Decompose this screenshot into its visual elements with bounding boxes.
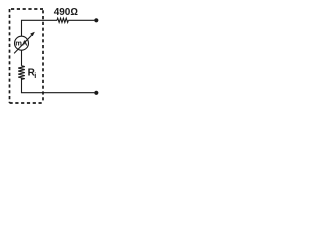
node: top terminal dot: [94, 18, 98, 22]
wire: meter bottom to Ri: [21, 50, 23, 66]
wire top: meter top to corner to resistor: [22, 20, 58, 36]
op meter mA circle: [15, 36, 29, 50]
wire bottom: Ri to bottom terminal: [22, 78, 95, 93]
wire: resistor to top terminal: [68, 19, 94, 21]
resistor 490ohm zigzag: [57, 18, 68, 22]
svg-text:i: i: [34, 71, 36, 80]
resistor Ri vertical zigzag: [18, 66, 25, 80]
dashed meter enclosure box: [10, 9, 44, 103]
svg-text:490Ω: 490Ω: [54, 7, 79, 18]
node: bottom terminal dot: [94, 91, 98, 95]
meter pointer arrow: [14, 32, 34, 53]
